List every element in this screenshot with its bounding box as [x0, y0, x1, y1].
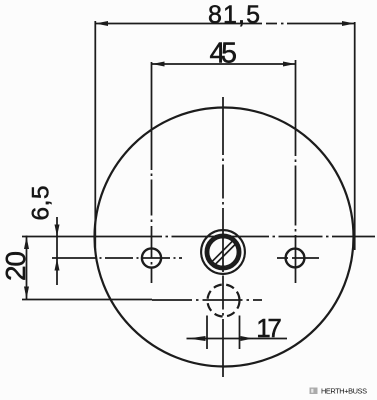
- svg-text:6,5: 6,5: [28, 186, 55, 221]
- svg-text:HERTH+BUSS: HERTH+BUSS: [321, 387, 367, 396]
- svg-text:45: 45: [210, 37, 238, 69]
- svg-text:20: 20: [0, 251, 31, 281]
- svg-text:17: 17: [256, 313, 282, 343]
- svg-text:81,5: 81,5: [208, 1, 260, 29]
